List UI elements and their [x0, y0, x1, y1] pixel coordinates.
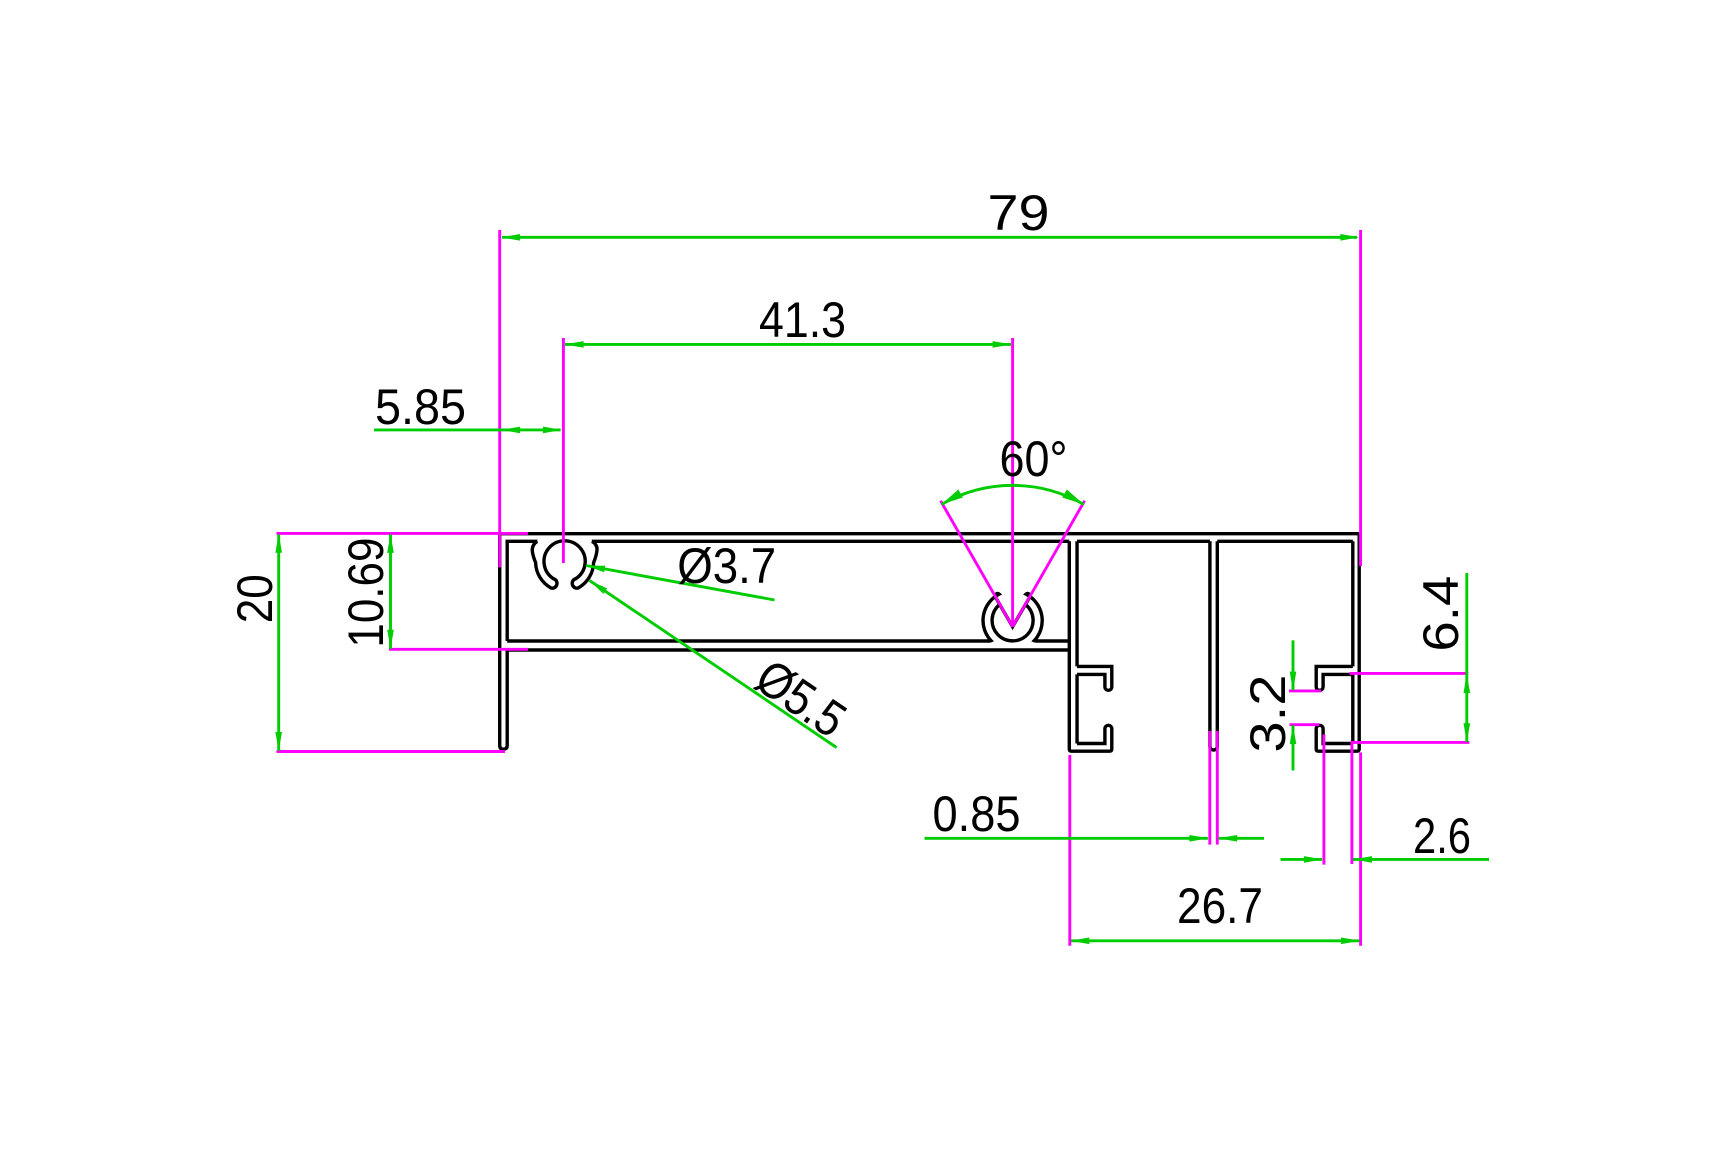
- inner top segment between thin wall and right wall: [1217, 540, 1353, 543]
- svg-text:26.7: 26.7: [1177, 877, 1263, 934]
- 60deg screw boss on bottom wall: [983, 594, 1069, 641]
- left leg inner upper + inner top left segment: [507, 541, 537, 641]
- middle wall left edge + foot: [1069, 541, 1112, 751]
- left leg outer+tip+bottom wall outer: [500, 534, 1070, 750]
- right wall outer + foot: [1316, 534, 1359, 752]
- thin wall: [1210, 541, 1217, 750]
- inner top middle segment: [592, 540, 1070, 543]
- svg-text:79: 79: [988, 184, 1050, 241]
- svg-text:6.4: 6.4: [1412, 576, 1469, 652]
- top wall outer edge: [500, 532, 1359, 535]
- middle wall right edge lower: [1075, 674, 1078, 743]
- svg-text:5.85: 5.85: [375, 378, 466, 435]
- bottom wall inner left: [507, 639, 988, 642]
- middle wall right edge upper: [1075, 541, 1078, 666]
- inner top segment between middle and thin wall: [1077, 540, 1210, 543]
- right wall tab with lip: [1316, 666, 1353, 690]
- svg-text:3.2: 3.2: [1239, 675, 1296, 753]
- 60deg boss inner circle (3.7 hole): [992, 604, 1033, 640]
- svg-text:60°: 60°: [1000, 430, 1068, 487]
- middle wall tab with lip: [1077, 666, 1112, 690]
- svg-text:Ø3.7: Ø3.7: [677, 537, 776, 594]
- svg-text:41.3: 41.3: [759, 291, 846, 348]
- right wall inner lower: [1351, 674, 1354, 743]
- svg-text:2.6: 2.6: [1413, 807, 1471, 864]
- svg-text:20: 20: [226, 574, 283, 623]
- top screw boss (C clip): [532, 541, 597, 588]
- right wall inner upper: [1351, 541, 1354, 666]
- svg-text:10.69: 10.69: [337, 538, 394, 648]
- svg-text:0.85: 0.85: [933, 785, 1021, 842]
